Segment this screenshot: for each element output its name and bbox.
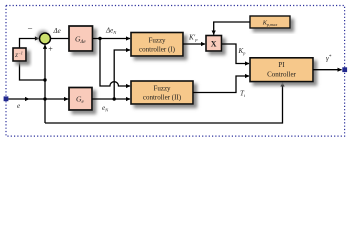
arrow plus input into summing junction xyxy=(43,44,47,49)
arrow on e line xyxy=(25,97,30,101)
wire K_p,max to multiplier top xyxy=(214,22,250,35)
wire e branch up to summing junction and down to feedback xyxy=(44,44,46,123)
wire e input line xyxy=(8,98,68,100)
svg-text:γ*: γ* xyxy=(326,55,332,63)
arrow K_p into PI xyxy=(245,61,250,65)
wire z-1 branch xyxy=(20,61,46,80)
svg-text:Controller: Controller xyxy=(267,71,296,79)
svg-text:e: e xyxy=(17,102,20,110)
svg-text:X: X xyxy=(211,40,217,49)
svg-text:controller (I): controller (I) xyxy=(139,46,176,54)
arrow into Fuzzy I top xyxy=(126,36,131,40)
arrow into multiplier top xyxy=(212,31,216,36)
svg-text:Δe: Δe xyxy=(53,27,61,35)
gain block G_e xyxy=(69,88,92,111)
svg-text:Ti: Ti xyxy=(240,90,246,99)
wire z-1 output to minus input xyxy=(20,39,40,49)
node input e (blue square) xyxy=(4,96,9,101)
wire Fuzzy I output to multiplier xyxy=(183,43,205,45)
wire PI output to gamma* node xyxy=(313,69,342,71)
svg-text:K′p: K′p xyxy=(188,34,198,43)
wire e_N branch up to Fuzzy I bottom xyxy=(114,50,130,99)
arrow into Fuzzy I bottom xyxy=(126,48,131,52)
summing junction xyxy=(40,33,51,44)
node junction De_N xyxy=(98,37,101,40)
block Fuzzy controller II xyxy=(131,81,193,104)
block PI Controller xyxy=(250,58,313,82)
arrow T_i into PI xyxy=(245,74,250,78)
arrow into Fuzzy II top xyxy=(126,84,131,88)
block Fuzzy controller I xyxy=(131,33,183,57)
svg-text:ΔeN: ΔeN xyxy=(105,27,117,36)
delay block z^-1 xyxy=(13,48,26,61)
block K_p,max xyxy=(250,16,290,28)
wire G_e output to Fuzzy II bottom xyxy=(92,98,130,100)
node junction e_N xyxy=(113,97,116,100)
arrow minus input into summing junction xyxy=(35,36,40,40)
wire multiplier output to PI top input xyxy=(222,44,250,64)
node junction on e line xyxy=(43,97,46,100)
wire De_N branch down to Fuzzy II top with hop xyxy=(100,39,130,87)
arrow into PI bottom xyxy=(280,82,284,87)
svg-text:+: + xyxy=(48,45,53,54)
svg-text:eN: eN xyxy=(102,104,109,113)
arrow into Fuzzy II bottom xyxy=(126,97,131,101)
svg-text:Kp: Kp xyxy=(238,47,247,56)
multiplier block X xyxy=(206,36,222,52)
svg-text:Kp,max: Kp,max xyxy=(262,20,278,28)
arrow into multiplier xyxy=(201,42,206,46)
svg-text:−: − xyxy=(28,24,33,34)
gain block G_de xyxy=(69,26,93,51)
wire feedback bottom line xyxy=(45,82,283,123)
wire Fuzzy II output to PI bottom input xyxy=(193,76,249,93)
wire G_de output to Fuzzy I top xyxy=(93,38,131,40)
svg-text:Fuzzy: Fuzzy xyxy=(153,85,171,93)
arrow into Ge xyxy=(64,97,69,101)
svg-text:PI: PI xyxy=(278,61,285,69)
node junction z-branch xyxy=(43,78,46,81)
node output (blue square) xyxy=(342,67,347,72)
svg-text:Fuzzy: Fuzzy xyxy=(148,37,166,45)
svg-text:controller (II): controller (II) xyxy=(143,94,182,102)
arrow into output node xyxy=(338,68,343,72)
dotted boundary frame xyxy=(6,6,345,137)
wire summing junction to G_de xyxy=(51,38,70,40)
